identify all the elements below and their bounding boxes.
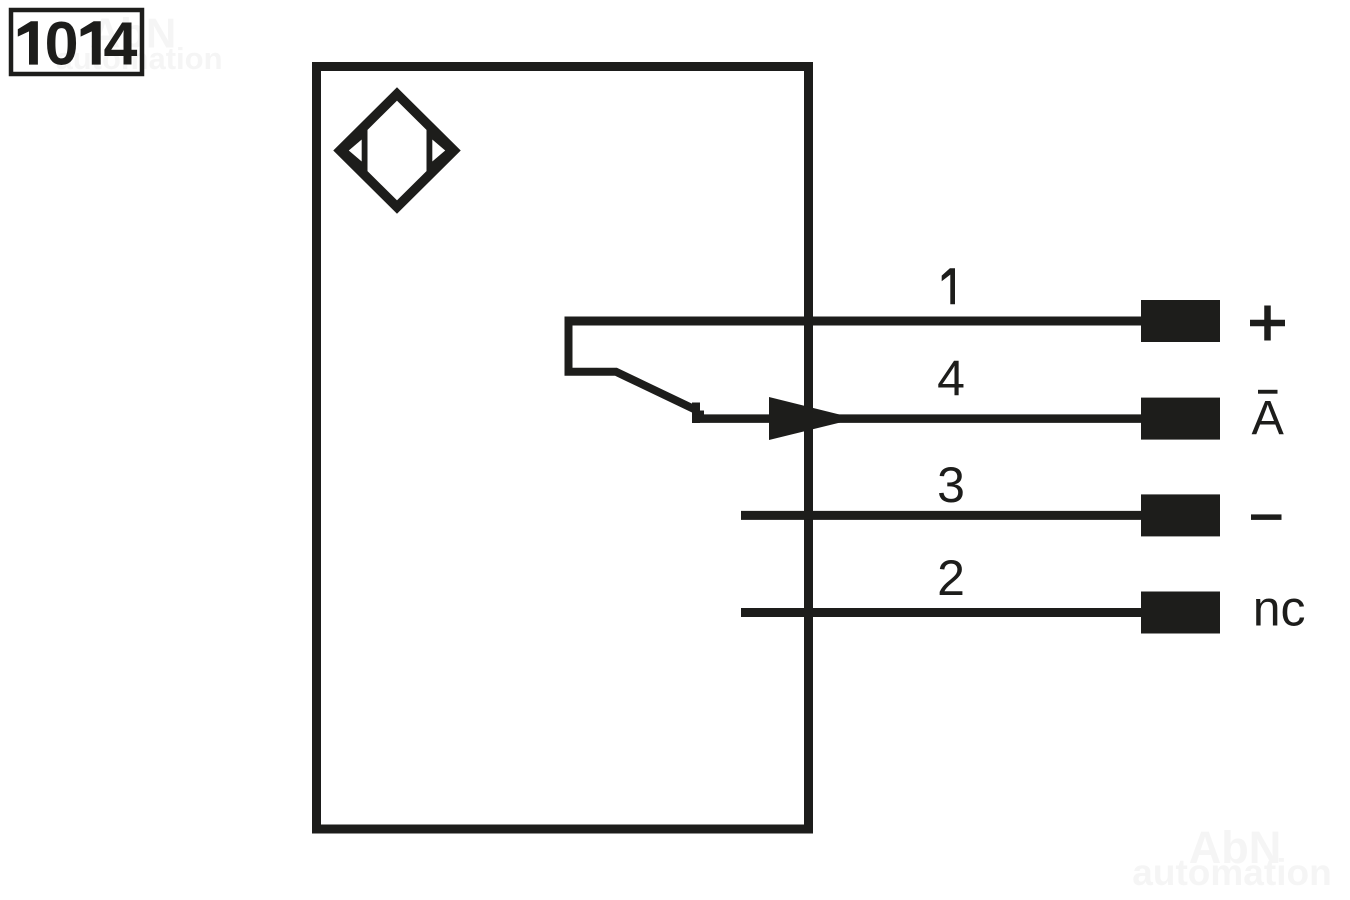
svg-text:A: A bbox=[1252, 391, 1285, 445]
watermark bottom-right bbox=[1132, 822, 1331, 893]
svg-text:4: 4 bbox=[104, 10, 138, 78]
figure number box 1014 bbox=[11, 10, 142, 74]
svg-text:4: 4 bbox=[937, 351, 965, 407]
label plus bbox=[1250, 320, 1285, 327]
arrow on wire 4 bbox=[769, 397, 856, 440]
wire 3 bbox=[741, 511, 1141, 520]
svg-text:2: 2 bbox=[937, 550, 965, 606]
svg-text:automation: automation bbox=[55, 41, 222, 76]
wire 1 bbox=[565, 317, 1142, 326]
wire 2 bbox=[741, 608, 1141, 617]
pin 3 terminal bbox=[1141, 494, 1220, 536]
pin 1 terminal bbox=[1141, 300, 1220, 342]
sensor body outline bbox=[317, 67, 809, 830]
label minus bbox=[1251, 514, 1282, 520]
svg-text:3: 3 bbox=[937, 457, 965, 513]
pin number 1 bbox=[942, 268, 955, 304]
svg-text:automation: automation bbox=[1132, 852, 1331, 893]
switch contact tick bbox=[692, 403, 700, 424]
pin 4 terminal bbox=[1141, 398, 1220, 440]
diamond left chord block bbox=[340, 123, 368, 178]
diamond right chord block bbox=[427, 123, 455, 178]
switch pivot wire bbox=[569, 321, 696, 410]
proximity sensor symbol (diamond) bbox=[340, 94, 454, 207]
wire 4 bbox=[694, 414, 1141, 423]
svg-text:nc: nc bbox=[1253, 580, 1306, 636]
pin 2 terminal bbox=[1141, 592, 1220, 634]
watermark top-left bbox=[55, 10, 222, 77]
svg-text:0: 0 bbox=[45, 10, 79, 78]
